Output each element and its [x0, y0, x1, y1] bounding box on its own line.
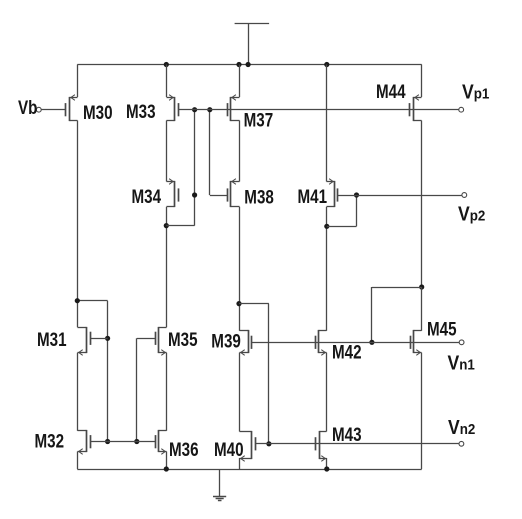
node M44 source / M45 drain junction — [419, 284, 424, 289]
wire M33 source to M34 drain — [166, 121, 168, 182]
svg-text:M36: M36 — [169, 438, 199, 460]
transistor M32 — [78, 430, 91, 454]
transistor M31 — [78, 327, 91, 355]
wire M36 source to ground rail — [166, 452, 168, 470]
node M39 drain tap — [236, 301, 241, 306]
wire Vp1 net (M33 M37 M44 gates) — [178, 109, 459, 111]
svg-text:M31: M31 — [37, 328, 67, 350]
transistor M34 — [167, 179, 179, 207]
svg-text:M41: M41 — [298, 185, 328, 207]
wire M31 source to M32 drain — [77, 353, 79, 431]
transistor M39 — [240, 330, 252, 355]
terminal Vn2 — [459, 441, 464, 446]
wire M45 drain loop vertical to Vn1 line — [371, 287, 373, 342]
transistor M40 — [240, 431, 256, 461]
wire M45 source to ground rail — [421, 353, 423, 469]
terminal Vp1 — [459, 107, 464, 112]
wire M31 drain tap across — [77, 300, 107, 302]
svg-text:M39: M39 — [211, 330, 241, 352]
transistor M42 — [316, 330, 327, 355]
svg-text:M35: M35 — [168, 328, 198, 350]
svg-text:M45: M45 — [427, 318, 457, 340]
wire M45 drain loop top — [372, 287, 422, 289]
wire M43 source to ground rail — [326, 458, 328, 469]
transistor M35 — [156, 327, 167, 355]
wire Vp1 line to M34 gate — [194, 110, 196, 226]
transistor M33 — [167, 95, 179, 121]
node M34 gate junction — [192, 192, 197, 197]
node M31 gate junction — [105, 336, 110, 341]
terminal Vp2 — [462, 193, 467, 198]
transistor M44 — [410, 95, 422, 121]
wire M34 gate-source tie — [166, 225, 194, 227]
svg-text:M42: M42 — [332, 341, 362, 363]
svg-text:M43: M43 — [332, 423, 362, 445]
wire M30 drain to rail — [77, 65, 79, 98]
wire M42 source to M43 drain — [326, 353, 328, 432]
node Vn1 line junction — [369, 340, 374, 345]
node M41 source tap — [324, 224, 329, 229]
wire M31 gate lead — [90, 338, 108, 340]
wire M34 source to M35 drain — [166, 207, 168, 327]
junction dots on ground rail — [164, 466, 330, 471]
wire M45 drain vertical — [421, 287, 423, 331]
wire M38 gate lead — [210, 195, 227, 197]
svg-text:M40: M40 — [214, 438, 244, 460]
wire M38 source to M39 drain — [239, 207, 241, 331]
wire Vn1 net (M39 M42 M45 gates) — [252, 342, 460, 344]
ground symbol — [213, 470, 226, 501]
svg-text:M34: M34 — [132, 185, 162, 207]
wire M32 M36 gate line — [90, 441, 155, 443]
junction dots on VDD rail — [164, 62, 330, 67]
terminal Vb — [36, 107, 41, 112]
node M36 gate junction — [134, 439, 139, 444]
node Vp1 line tap 2 — [207, 107, 212, 112]
VDD supply symbol — [235, 24, 270, 65]
svg-text:M30: M30 — [83, 101, 113, 123]
wire Vp1 line to M38 gate vertical — [209, 110, 211, 195]
wire M39 drain tap across — [239, 303, 269, 305]
wire Vb input lead — [41, 109, 66, 111]
wire Vp2 net (M41 gate) — [338, 195, 462, 197]
wire M39 source to M40 drain — [239, 353, 241, 432]
wire M35 gate vertical — [136, 338, 138, 441]
svg-text:Vb: Vb — [18, 96, 37, 118]
transistor M41 — [327, 179, 338, 207]
transistor M45 — [411, 330, 422, 355]
svg-text:M44: M44 — [376, 80, 406, 102]
wire M39 drain to M40 gate vertical — [268, 304, 270, 444]
wire M41 drain to rail — [326, 65, 328, 182]
svg-text:M33: M33 — [126, 100, 156, 122]
wire M35 gate lead — [137, 338, 155, 340]
svg-text:M38: M38 — [244, 186, 274, 208]
transistor M37 — [228, 95, 240, 121]
wire M32 source to ground rail — [77, 452, 79, 470]
transistor M43 — [316, 431, 327, 461]
bottom ground rail — [77, 469, 421, 471]
wire M41 gate-source vertical — [356, 195, 358, 226]
node M32 gate junction — [105, 439, 110, 444]
node M40 gate junction — [266, 441, 271, 446]
wire M31 gate-drain vertical — [107, 301, 109, 442]
transistor M38 — [228, 179, 240, 207]
wire M40 source to ground rail — [239, 458, 241, 469]
wire M44 drain to rail — [421, 65, 423, 98]
wire M41 source to M42 drain — [326, 207, 328, 331]
svg-text:M32: M32 — [35, 430, 65, 452]
terminal Vn1 — [459, 340, 464, 345]
transistor M36 — [156, 430, 167, 454]
node M31 drain tap — [75, 298, 80, 303]
node Vp1 line tap 1 — [192, 107, 197, 112]
wire M41 gate-source tie bottom — [327, 226, 357, 228]
top VDD rail — [77, 64, 421, 66]
wire M37 drain to rail — [239, 65, 241, 98]
node M34 source tap — [164, 223, 169, 228]
node M41 gate junction on Vp2 line — [354, 192, 359, 197]
wire Vn2 net (M40 M43 gates) — [255, 443, 459, 445]
svg-text:M37: M37 — [244, 109, 274, 131]
wire M33 drain to rail — [166, 65, 168, 98]
wire M37 source to M38 drain — [239, 121, 241, 182]
wire M35 source to M36 drain — [166, 353, 168, 431]
wire M44 source down — [421, 121, 423, 288]
wire M30 source to M31 drain — [77, 121, 79, 328]
transistor M30 — [66, 95, 78, 121]
